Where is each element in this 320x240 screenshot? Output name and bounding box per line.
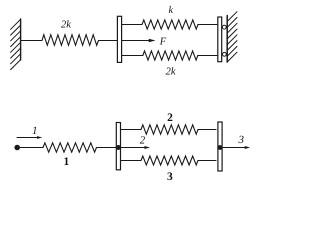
displacement arrow 3 bbox=[222, 146, 250, 149]
wire spring 1 to left plate bbox=[97, 147, 117, 149]
svg-text:2: 2 bbox=[140, 134, 146, 146]
spring 2k (bottom) bbox=[143, 51, 198, 60]
wire plate to spring k (top rail) bbox=[122, 24, 142, 26]
svg-text:2k: 2k bbox=[61, 19, 71, 30]
wire spring 3 to right plate bbox=[198, 160, 216, 162]
wire spring 2 to right plate bbox=[198, 129, 216, 131]
spring 1 bbox=[43, 143, 97, 152]
wire node to spring 1 bbox=[17, 147, 43, 149]
spring 2 bbox=[141, 125, 198, 134]
wire wall to spring 2k bbox=[21, 40, 42, 42]
right wall line bbox=[226, 16, 228, 63]
svg-text:1: 1 bbox=[32, 125, 38, 137]
svg-text:F: F bbox=[159, 37, 167, 48]
force arrow F bbox=[122, 39, 156, 42]
svg-text:3: 3 bbox=[167, 171, 173, 183]
svg-text:1: 1 bbox=[64, 156, 70, 168]
wire plate to spring 2k bottom rail bbox=[122, 55, 143, 57]
spring 3 bbox=[141, 156, 198, 165]
svg-text:2: 2 bbox=[167, 112, 173, 124]
left wall line bbox=[20, 19, 22, 60]
right wall hatching bbox=[227, 12, 237, 62]
spring 2k (left) bbox=[42, 35, 99, 46]
wire plate to spring 3 bbox=[121, 160, 142, 162]
left wall hatching bbox=[11, 19, 21, 69]
node 3 dot bbox=[218, 145, 223, 150]
node 2 dot bbox=[116, 145, 121, 150]
plate (middle mass bar, top figure) bbox=[117, 16, 121, 62]
wire spring k to right plate bbox=[198, 24, 218, 26]
roller bottom bbox=[223, 52, 227, 56]
svg-text:k: k bbox=[169, 5, 174, 16]
wire spring 2k to plate bbox=[99, 40, 118, 42]
left plate (bottom figure) bbox=[116, 123, 120, 170]
displacement arrow 1 bbox=[17, 136, 42, 139]
svg-text:3: 3 bbox=[237, 134, 244, 146]
spring k bbox=[142, 20, 198, 29]
wire plate to spring 2 bbox=[121, 129, 142, 131]
right plate (top figure) bbox=[218, 17, 222, 62]
svg-text:2k: 2k bbox=[166, 66, 176, 77]
displacement arrow 2 bbox=[121, 146, 151, 149]
node 1 (bottom figure, left dot) bbox=[14, 145, 20, 151]
right plate (bottom figure) bbox=[218, 122, 222, 171]
wire bottom spring to right plate bbox=[198, 55, 218, 57]
roller top bbox=[222, 25, 226, 29]
